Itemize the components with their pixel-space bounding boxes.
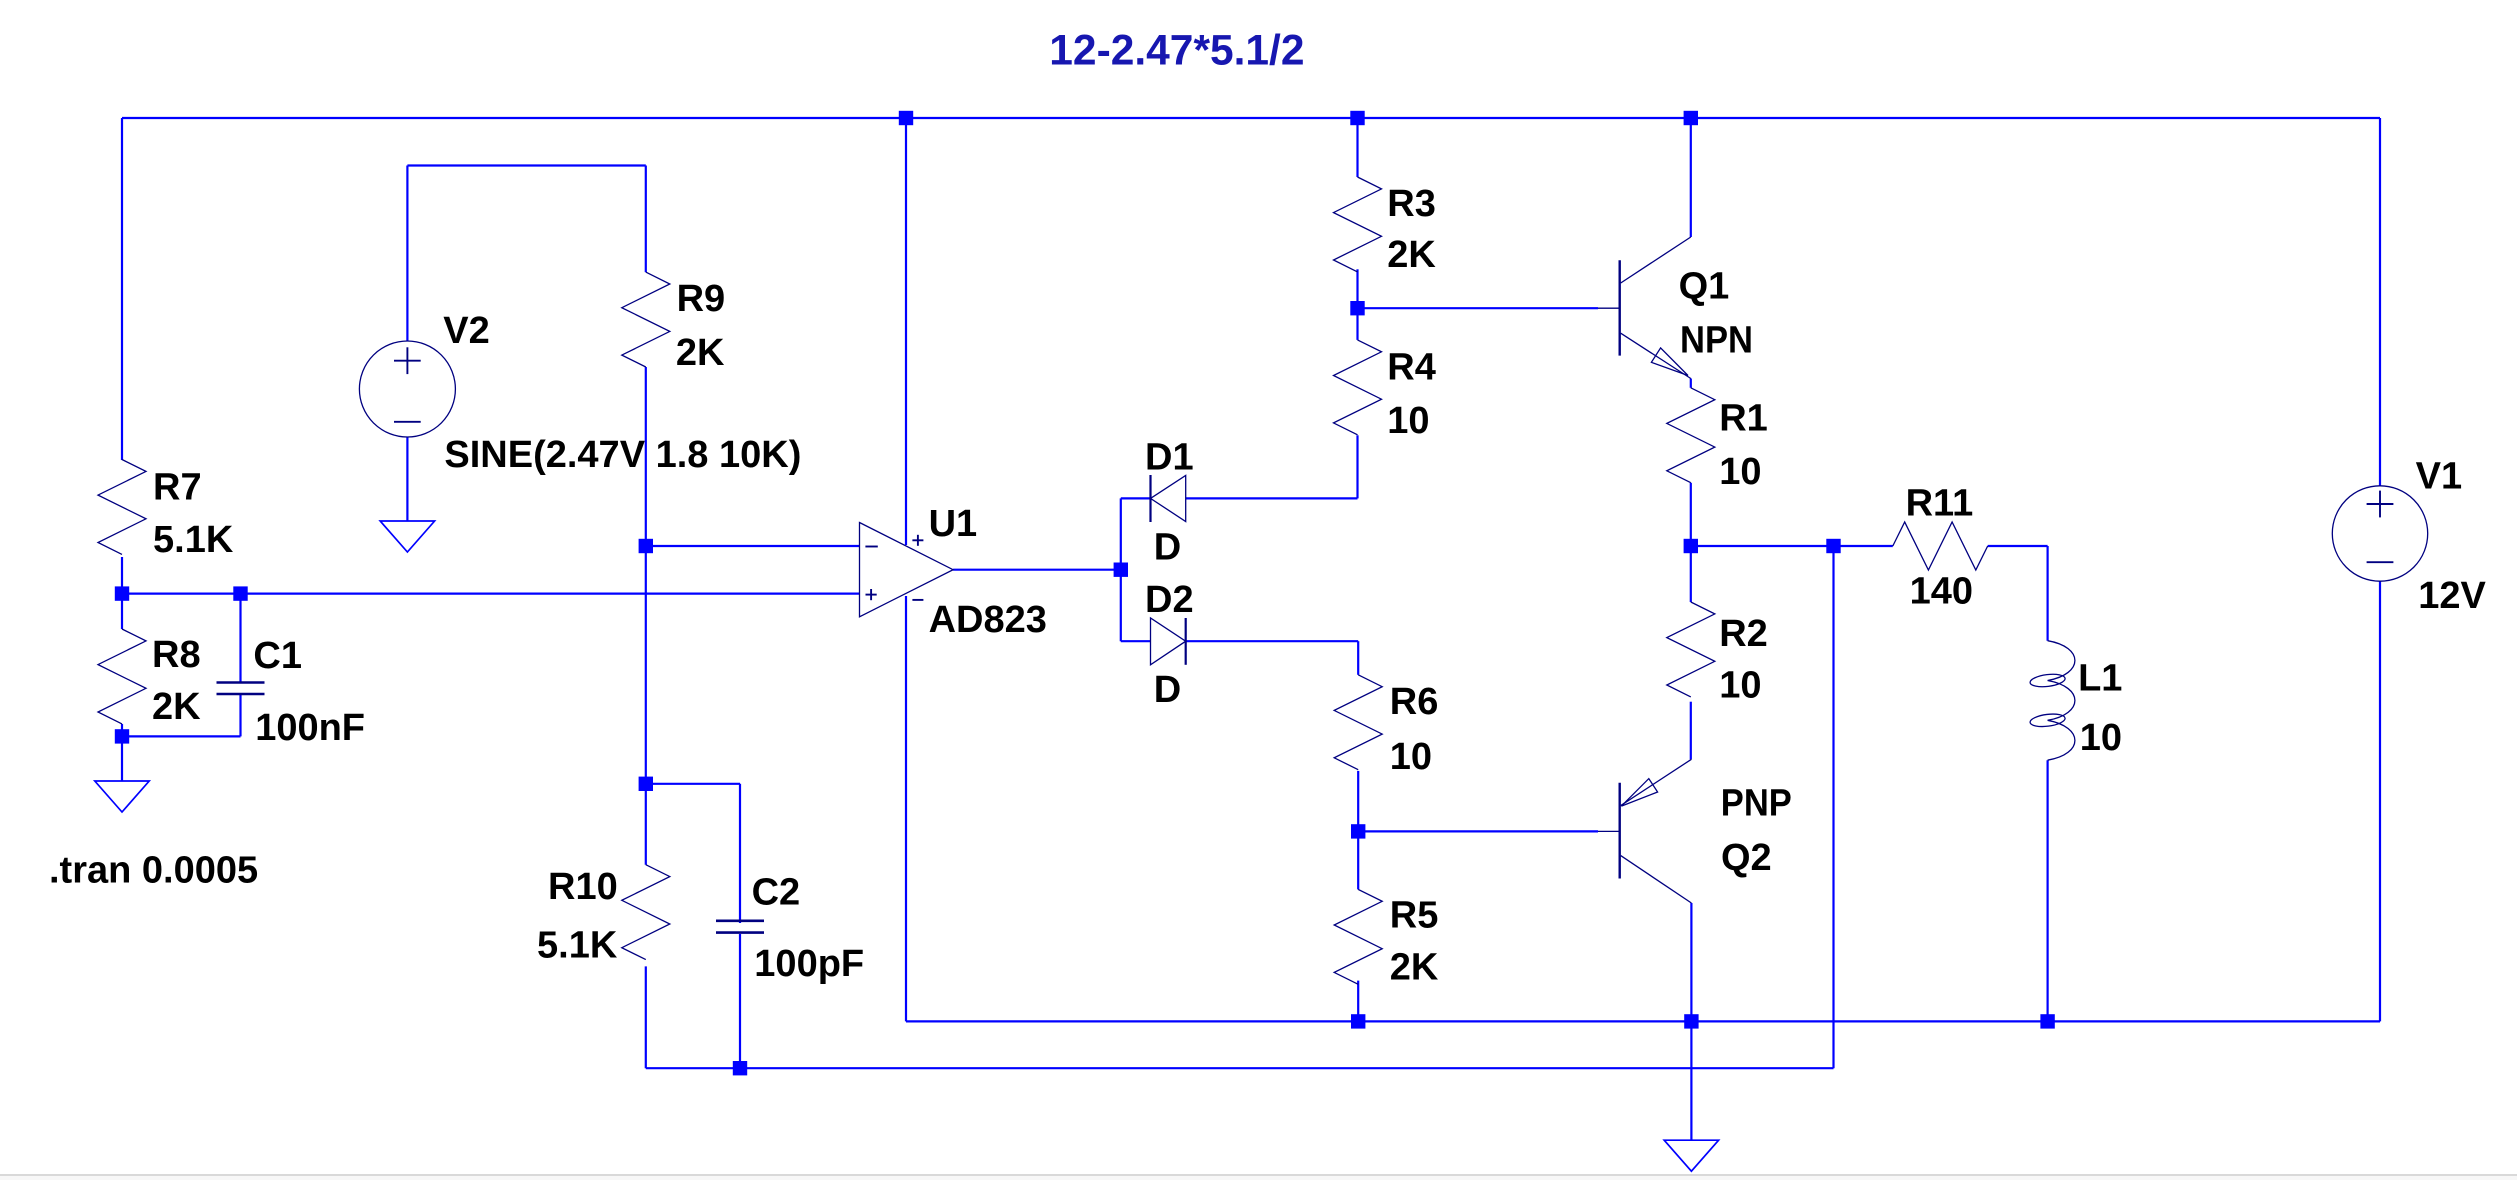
svg-text:10: 10 <box>1390 736 1432 778</box>
svg-text:U1: U1 <box>929 503 978 545</box>
svg-text:R2: R2 <box>1719 613 1768 655</box>
svg-text:5.1K: 5.1K <box>537 924 618 966</box>
svg-text:Q1: Q1 <box>1679 266 1730 308</box>
svg-text:10: 10 <box>1719 665 1761 707</box>
svg-text:.tran 0.0005: .tran 0.0005 <box>49 849 258 891</box>
svg-text:SINE(2.47V 1.8 10K): SINE(2.47V 1.8 10K) <box>444 434 801 476</box>
svg-text:PNP: PNP <box>1721 782 1792 824</box>
svg-text:R1: R1 <box>1719 398 1768 440</box>
svg-text:R10: R10 <box>548 866 618 908</box>
svg-text:R4: R4 <box>1387 346 1436 388</box>
svg-text:D2: D2 <box>1145 579 1194 621</box>
svg-text:12-2.47*5.1/2: 12-2.47*5.1/2 <box>1049 28 1304 75</box>
svg-text:L1: L1 <box>2078 658 2122 700</box>
svg-text:5.1K: 5.1K <box>153 519 234 561</box>
svg-text:2K: 2K <box>1387 234 1436 276</box>
svg-text:Q2: Q2 <box>1721 837 1772 879</box>
svg-text:C1: C1 <box>253 635 302 677</box>
svg-text:R11: R11 <box>1906 482 1974 524</box>
svg-text:R7: R7 <box>153 467 202 509</box>
svg-text:AD823: AD823 <box>929 599 1047 641</box>
svg-text:D: D <box>1154 526 1181 568</box>
svg-text:10: 10 <box>2080 717 2122 759</box>
svg-text:R3: R3 <box>1387 183 1436 225</box>
svg-text:C2: C2 <box>752 871 801 913</box>
svg-text:10: 10 <box>1387 400 1429 442</box>
svg-text:R5: R5 <box>1390 894 1439 936</box>
svg-text:R9: R9 <box>677 278 726 320</box>
svg-text:NPN: NPN <box>1680 319 1753 361</box>
svg-text:140: 140 <box>1910 571 1973 613</box>
svg-text:100nF: 100nF <box>255 707 365 749</box>
svg-text:R8: R8 <box>152 634 201 676</box>
svg-text:D: D <box>1154 669 1181 711</box>
svg-text:D1: D1 <box>1145 437 1194 479</box>
svg-text:2K: 2K <box>1390 947 1439 989</box>
svg-text:2K: 2K <box>152 686 201 728</box>
svg-text:12V: 12V <box>2418 575 2486 617</box>
svg-text:2K: 2K <box>676 332 725 374</box>
svg-text:10: 10 <box>1719 451 1761 493</box>
svg-text:100pF: 100pF <box>754 943 864 985</box>
svg-text:V1: V1 <box>2416 455 2462 497</box>
svg-text:V2: V2 <box>443 310 489 352</box>
svg-text:R6: R6 <box>1390 681 1439 723</box>
